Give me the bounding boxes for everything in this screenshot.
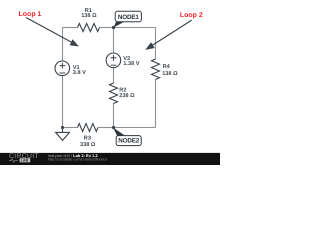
wire middle branch R2 to NODE2 (113, 103, 115, 128)
svg-text:NODE2: NODE2 (118, 138, 140, 145)
voltage source V2 (106, 53, 121, 68)
node ground junction dot (61, 126, 64, 129)
svg-text:R3: R3 (84, 135, 91, 141)
svg-text:R4: R4 (163, 64, 171, 70)
node NODE1 label box (115, 11, 141, 21)
voltage source V1 (55, 61, 70, 76)
svg-text:NODE1: NODE1 (118, 14, 140, 21)
Loop 2 annotation arrow (152, 20, 192, 45)
resistor R3 (78, 124, 98, 132)
wire middle branch NODE1 to V2 (113, 28, 115, 54)
wire bottom rail ground to R3 (63, 127, 78, 129)
Loop 1 annotation arrow (26, 18, 72, 43)
wire top rail NODE1 junction to top-right corner (114, 27, 156, 29)
wire top-left segment (node1 top rail left of R1) (63, 27, 78, 29)
svg-text:LAB: LAB (21, 159, 29, 163)
footer logo waveform (9, 159, 18, 162)
svg-text:Loop 2: Loop 2 (180, 12, 203, 19)
wire top rail right of R1 to NODE1 junction (100, 27, 114, 29)
NODE2 label callout tail (113, 128, 126, 137)
node NODE2 junction dot (112, 126, 115, 129)
footer bar (0, 153, 220, 165)
wire bottom rail R3 to NODE2 junction (98, 127, 114, 129)
ground (62, 128, 64, 133)
svg-text:138 Ω: 138 Ω (162, 71, 178, 77)
svg-text:3.8 V: 3.8 V (73, 70, 86, 76)
wire left branch above V1 (62, 28, 64, 62)
svg-text:1.38 V: 1.38 V (123, 61, 139, 67)
svg-text:Loop 1: Loop 1 (19, 11, 42, 18)
svg-text:338 Ω: 338 Ω (80, 142, 96, 148)
footer logo LAB box (20, 158, 31, 162)
svg-text:http://circuitlab.com/cnwd/adf: http://circuitlab.com/cnwd/adfkxxtcv (48, 158, 108, 162)
wire left branch below V1 (62, 76, 64, 128)
wire middle branch V2 to R2 (113, 68, 115, 83)
wire bottom rail NODE2 to bottom-right corner (114, 127, 156, 129)
resistor R2 (110, 83, 118, 103)
resistor R4 (152, 59, 160, 79)
wire right branch top corner to R4 (155, 28, 157, 60)
svg-text:138 Ω: 138 Ω (81, 13, 97, 19)
node NODE1 junction dot (112, 26, 115, 29)
resistor R1 (78, 24, 100, 32)
node NODE2 label box (116, 136, 141, 146)
svg-text:238 Ω: 238 Ω (119, 93, 135, 99)
wire right branch R4 to bottom corner (155, 80, 157, 128)
NODE1 label callout tail (114, 21, 126, 28)
